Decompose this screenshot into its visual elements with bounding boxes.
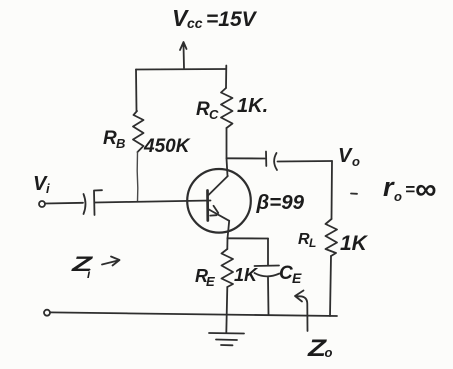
arrow Zi [102,257,120,266]
resistor RB [133,111,144,152]
wire top rail right drop [225,66,227,89]
svg-text:o: o [394,189,402,204]
resistor RE [222,249,234,287]
wire collector to C2 [227,157,266,159]
wire emitter junction to CE [228,237,269,239]
label Zo [307,335,333,362]
wire RE to ground [226,287,227,333]
wire Vo to RL [331,161,334,219]
label ro=inf [383,172,436,206]
svg-text:1K: 1K [234,265,259,285]
wire RL to bottom rail [330,256,331,316]
svg-text:=: = [405,180,415,199]
svg-text:E: E [292,270,302,286]
svg-text:C: C [209,107,219,122]
transistor Q1 [187,169,251,233]
wire bottom rail [50,312,337,316]
wire C2 to Vo node [278,160,333,163]
svg-text:R: R [196,99,210,120]
wire emitter lead [228,221,230,239]
capacitor C2 output coupling [265,152,267,167]
minus sign [351,193,357,195]
label Zi [70,253,93,281]
svg-text:B: B [116,136,125,151]
capacitor CE [267,239,269,266]
svg-text:o: o [352,154,360,169]
wire emitter junction to RE [226,238,228,249]
ground [209,333,244,345]
svg-text:C: C [279,263,293,284]
wire collector lead [227,128,228,176]
svg-text:E: E [206,274,215,289]
wire top rail [136,68,226,71]
label CE [279,263,302,286]
svg-text:L: L [309,236,316,250]
node Vi input terminal [39,201,45,207]
wire RB to base [136,152,139,202]
wire Vi to C1 [45,202,83,205]
svg-text:o: o [325,345,333,360]
svg-text:∞: ∞ [415,173,436,206]
svg-text:V: V [338,145,353,167]
svg-text:cc: cc [187,15,203,31]
label Vo [338,145,360,169]
label RB [103,128,125,151]
Vcc supply arrow [180,42,187,68]
wire C1 to base [95,201,211,203]
svg-text:i: i [46,181,50,196]
resistor RC [221,88,233,128]
svg-text:β=99: β=99 [256,191,305,214]
svg-text:1K.: 1K. [237,95,268,117]
label RE [195,266,215,289]
arrow Zo [295,291,308,332]
label Vcc=15V [172,5,258,31]
capacitor C1 input coupling [84,194,86,214]
svg-text:=15V: =15V [206,8,258,31]
label Vi [33,173,50,196]
wire top rail left drop [135,70,138,112]
svg-text:1K: 1K [340,232,369,255]
label RL [298,231,316,250]
node ground terminal [44,310,50,316]
svg-text:450K: 450K [143,136,191,157]
label RC [196,99,219,122]
resistor RL [326,219,338,256]
svg-text:R: R [103,128,117,149]
